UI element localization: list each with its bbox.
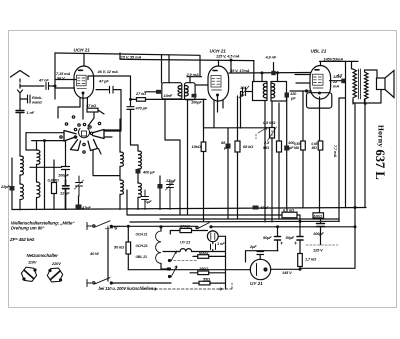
svg-text:68 kΩ: 68 kΩ — [243, 144, 253, 149]
svg-text:µF: µF — [223, 145, 229, 150]
svg-text:7,7 mA: 7,7 mA — [333, 145, 338, 157]
trimmer 12pF — [63, 180, 70, 209]
trimmer 104 — [239, 86, 253, 128]
svg-text:47 nF: 47 nF — [38, 78, 49, 83]
node — [54, 85, 56, 87]
wire bus 214 — [127, 190, 282, 215]
svg-text:55Ω: 55Ω — [203, 277, 210, 282]
svg-text:27AΩ: 27AΩ — [179, 224, 190, 229]
capacitor 2uF — [246, 251, 279, 262]
svg-text:180Ω: 180Ω — [199, 266, 208, 271]
capacitor 50uF (1) — [275, 226, 283, 251]
capacitor 470pF — [127, 99, 138, 152]
mains switch pole 1 — [93, 221, 196, 228]
svg-text:125 V, 4,5 mA: 125 V, 4,5 mA — [216, 54, 240, 59]
capacitor 4.7nF anode — [330, 79, 346, 84]
rotary wave switch — [26, 113, 121, 209]
dial lamp — [207, 231, 225, 244]
vertical collector x225 — [225, 236, 227, 289]
svg-text:49 V, 17mA: 49 V, 17mA — [229, 68, 250, 73]
wire to tube1 grid — [55, 80, 76, 89]
svg-text:Horny: Horny — [377, 125, 386, 147]
svg-text:115 V, 55 mA: 115 V, 55 mA — [119, 54, 141, 59]
osc coil L3 — [120, 119, 123, 210]
svg-text:Drehung um 90°: Drehung um 90° — [11, 226, 44, 231]
mains plug — [87, 223, 92, 287]
antenna coil L2 — [26, 133, 40, 210]
svg-text:MΩ: MΩ — [263, 145, 269, 150]
svg-text:400 µF: 400 µF — [142, 170, 155, 175]
trimmer osc — [75, 176, 84, 196]
svg-text:125 V: 125 V — [313, 248, 323, 253]
svg-text:12 µF: 12 µF — [60, 191, 70, 196]
resistor 100R — [313, 213, 324, 222]
capacitor 47nF black — [76, 196, 82, 209]
resistor 0.65M — [318, 141, 323, 150]
svg-text:½µF: ½µF — [144, 199, 152, 204]
UY heater winding — [163, 249, 226, 252]
resistor 27k — [131, 98, 207, 102]
svg-text:1 nF: 1 nF — [27, 110, 35, 115]
switch pickup dashed — [256, 128, 272, 141]
chassis bus line — [12, 208, 366, 210]
svg-text:47 pF: 47 pF — [98, 79, 109, 84]
svg-text:UBL 21: UBL 21 — [136, 255, 148, 259]
svg-text:10nF: 10nF — [164, 93, 173, 98]
capacitor 1nF — [16, 99, 24, 130]
capacitor 47nF — [46, 83, 55, 90]
svg-text:2,9 mA: 2,9 mA — [186, 72, 199, 77]
switch wedge bottom-left — [71, 140, 81, 151]
wire 145V drop to transformer — [351, 62, 353, 69]
wire left drop — [54, 53, 56, 99]
resistor 600R — [170, 255, 226, 261]
svg-text:22pF: 22pF — [0, 184, 10, 189]
wire 347 vertical — [345, 61, 347, 207]
resistor 1.7k — [298, 254, 303, 270]
resistor 2.5M — [277, 103, 282, 219]
wire UY cathode line — [128, 269, 250, 271]
resistor 50k — [126, 225, 131, 269]
svg-text:pF: pF — [239, 93, 245, 98]
svg-text:UCH 21: UCH 21 — [74, 47, 91, 52]
capacitor 50uF (2) — [295, 221, 304, 254]
wire bus 221 — [130, 220, 339, 223]
trimmer 22pF osc — [158, 176, 175, 210]
tube UY 21 — [250, 259, 300, 279]
wire long vertical x203.5 with 10k — [203, 99, 205, 142]
svg-text:Netzumschalter: Netzumschalter — [27, 253, 59, 258]
wire bus1 115V — [55, 53, 200, 77]
IF transformer 1 — [145, 55, 208, 215]
resistor 180R — [190, 271, 226, 275]
svg-text:10kΩ: 10kΩ — [192, 144, 201, 149]
output transformer — [352, 69, 377, 104]
netz selector plug 110V — [21, 267, 36, 281]
wire antenna to grid cap — [20, 85, 44, 87]
resistor 27R — [170, 228, 207, 234]
osc coil L4 — [138, 151, 141, 210]
wire right column — [300, 104, 355, 269]
svg-text:MΩ: MΩ — [312, 146, 318, 150]
svg-text:637 L: 637 L — [373, 150, 387, 180]
capacitor 47nF (2) black — [253, 206, 259, 210]
capacitor 68pF black — [226, 128, 231, 219]
svg-text:110V: 110V — [28, 260, 37, 265]
svg-text:4,9 nF: 4,9 nF — [265, 54, 277, 59]
wires tube1 bottom pins — [83, 93, 87, 119]
capacitor 400pF black — [136, 169, 141, 174]
wire x339 down — [339, 98, 346, 222]
power transformer heater winding — [156, 226, 170, 270]
voltage selector contacts — [169, 251, 178, 278]
svg-text:UCH-21: UCH-21 — [136, 244, 148, 248]
svg-text:1 nF: 1 nF — [217, 241, 225, 246]
capacitor 100uF — [317, 222, 325, 245]
tube UCH 21 (2nd) — [208, 60, 229, 101]
antenna coil L1 — [20, 130, 23, 210]
svg-text:96 V: 96 V — [57, 76, 65, 81]
svg-text:0,8MΩ: 0,8MΩ — [48, 178, 59, 183]
switch wedge bottom — [88, 140, 98, 151]
svg-text:1,7 kΩ: 1,7 kΩ — [305, 257, 316, 262]
svg-text:2µF: 2µF — [249, 244, 257, 249]
mains switch pole 3 — [196, 223, 355, 229]
svg-text:145 V: 145 V — [282, 270, 292, 275]
potentiometer 0.5M volume — [268, 101, 277, 222]
netz selector plug 220V — [47, 268, 62, 282]
svg-text:6,8 kΩ: 6,8 kΩ — [283, 208, 294, 213]
wire secondary down — [364, 99, 366, 208]
svg-text:„Lang“: „Lang“ — [104, 225, 120, 230]
svg-text:46 V, 12 mA: 46 V, 12 mA — [97, 69, 119, 74]
resistor 55R — [193, 281, 226, 285]
capacitor 47pF — [96, 86, 121, 130]
tube UBL 21 — [310, 61, 358, 99]
svg-text:bei 110 u. 200V kurzschließen: bei 110 u. 200V kurzschließen — [99, 286, 154, 291]
junction dots — [19, 207, 340, 222]
svg-text:100µF: 100µF — [313, 231, 324, 236]
svg-text:22 µF: 22 µF — [165, 178, 176, 183]
svg-text:104: 104 — [240, 85, 247, 90]
wire volume pot down — [264, 106, 266, 222]
speaker — [353, 71, 394, 104]
feedback loop below tube3 — [290, 90, 332, 213]
svg-text:UBL 21: UBL 21 — [311, 48, 327, 53]
svg-text:UY 21: UY 21 — [250, 281, 263, 286]
wire bus 218 — [160, 218, 339, 220]
switch wedge right — [93, 130, 105, 139]
svg-text:47nF: 47nF — [259, 205, 269, 210]
capacitor 1nF heater — [211, 244, 216, 252]
measure line 125V — [306, 244, 338, 246]
svg-text:600Ω: 600Ω — [199, 250, 208, 255]
wire 46V anode line — [88, 76, 131, 99]
resistor 0.55M — [301, 91, 306, 208]
capacitor 22pF — [10, 158, 15, 210]
svg-text:MΩ: MΩ — [294, 146, 300, 150]
resistor 47k — [87, 108, 104, 114]
svg-text:pF: pF — [290, 96, 296, 101]
capacitor 100pF — [30, 141, 70, 180]
svg-text:100Ω: 100Ω — [314, 214, 323, 218]
svg-text:UY 21: UY 21 — [180, 240, 190, 245]
svg-text:wand: wand — [32, 100, 42, 105]
dashed kurzschliessen line — [152, 283, 232, 290]
svg-text:47 kΩ: 47 kΩ — [85, 103, 96, 108]
svg-text:50µF: 50µF — [286, 235, 295, 240]
capacitor 100pF black right — [284, 98, 289, 209]
border frame — [9, 31, 397, 308]
tube UCH 21 (1st) — [74, 54, 94, 99]
svg-text:47nF: 47nF — [81, 205, 91, 210]
capacitor Rueckwand — [20, 95, 30, 103]
svg-text:27 kΩ: 27 kΩ — [135, 91, 146, 96]
switch wedge left — [64, 131, 76, 142]
svg-text:100pF: 100pF — [58, 173, 69, 178]
antenna — [11, 71, 30, 100]
resistor 68k — [235, 96, 240, 219]
wire tube3 grid — [295, 75, 310, 84]
svg-text:50µF: 50µF — [263, 235, 272, 240]
svg-text:UCH 21: UCH 21 — [136, 233, 148, 237]
svg-text:ZF= 452 kHz: ZF= 452 kHz — [9, 237, 35, 242]
switch contact dots — [74, 128, 76, 130]
svg-text:470 pF: 470 pF — [135, 106, 148, 111]
resistor 0.8M — [52, 160, 57, 210]
mains switch pole 2 — [93, 278, 171, 284]
svg-text:145V,53mA: 145V,53mA — [324, 56, 344, 61]
svg-text:50 kΩ: 50 kΩ — [114, 245, 124, 250]
wire 49V line — [229, 60, 310, 73]
wires tube2 bottom pins — [214, 95, 223, 128]
capacitor 1/2 uF — [142, 190, 149, 210]
IF transformer 2 — [253, 72, 290, 106]
svg-text:100µF: 100µF — [191, 100, 202, 105]
svg-text:0,5 MΩ: 0,5 MΩ — [263, 120, 275, 125]
svg-text:mA: mA — [333, 84, 339, 89]
svg-text:220V: 220V — [51, 261, 61, 266]
svg-text:40 W: 40 W — [89, 251, 99, 256]
capacitor 4.9nF — [271, 63, 275, 76]
svg-text:4,7: 4,7 — [336, 73, 343, 78]
resistor 6.8k — [282, 212, 297, 218]
switch link bar — [107, 228, 109, 281]
wire primary bottom down — [352, 99, 354, 103]
